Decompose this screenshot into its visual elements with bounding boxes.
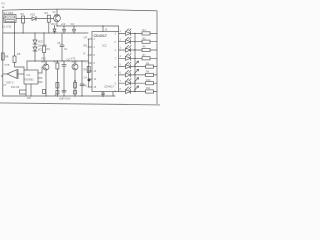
svg-text:CD4017: CD4017	[104, 85, 115, 89]
svg-text:(GB 4.5V): (GB 4.5V)	[59, 97, 71, 101]
svg-text:YD57-2: YD57-2	[6, 82, 15, 85]
svg-text:IC1: IC1	[27, 74, 32, 77]
svg-text:R6: R6	[84, 83, 88, 87]
svg-text:R5: R5	[17, 52, 21, 56]
svg-text:R6: R6	[54, 60, 58, 64]
svg-text:CP: CP	[84, 35, 88, 39]
svg-text:R3: R3	[45, 11, 49, 15]
svg-text:9013: 9013	[54, 13, 60, 17]
svg-text:VD2: VD2	[38, 40, 44, 44]
svg-text:VD3: VD3	[38, 48, 44, 52]
svg-text:IC2: IC2	[102, 44, 107, 48]
svg-text:+C3: +C3	[61, 22, 66, 26]
svg-text:C: C	[85, 59, 87, 63]
svg-text:R8: R8	[5, 55, 9, 59]
svg-text:R1 100k: R1 100k	[4, 11, 14, 15]
svg-text:103: 103	[27, 96, 32, 100]
svg-text:C2: C2	[71, 22, 75, 26]
svg-text:R10 C8: R10 C8	[11, 86, 20, 89]
svg-text:R: R	[84, 51, 86, 55]
svg-text:R4: R4	[47, 47, 51, 51]
svg-text:1N4148: 1N4148	[38, 44, 48, 48]
svg-text:CD4017: CD4017	[94, 34, 108, 38]
svg-text:VD1: VD1	[30, 13, 36, 17]
svg-text:0.1: 0.1	[64, 47, 68, 51]
svg-text:EN: EN	[84, 43, 88, 47]
svg-text:B: B	[1, 74, 3, 78]
svg-text:C1 0.33: C1 0.33	[2, 25, 12, 29]
svg-text:C4: C4	[84, 75, 88, 79]
svg-text:KD9561: KD9561	[25, 79, 35, 82]
svg-text:VT5: VT5	[5, 63, 10, 67]
svg-text:1A: 1A	[2, 6, 5, 9]
svg-text:R2: R2	[21, 12, 25, 16]
svg-text:4.7: 4.7	[55, 93, 59, 97]
svg-text:C5: C5	[57, 41, 61, 45]
svg-text:VD4: VD4	[51, 22, 57, 26]
svg-text:9013: 9013	[72, 60, 78, 64]
svg-text:C7: C7	[3, 83, 7, 87]
svg-text:R5: R5	[84, 67, 88, 71]
svg-text:9013: 9013	[41, 60, 47, 64]
svg-text:R11: R11	[146, 87, 151, 90]
svg-text:R10: R10	[146, 79, 151, 82]
